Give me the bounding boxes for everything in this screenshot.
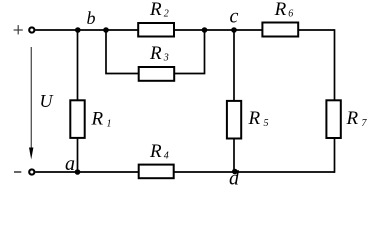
svg-text:5: 5 <box>264 118 269 129</box>
resistor R5 <box>227 101 241 139</box>
wire: R5 bottom to node d <box>233 138 235 172</box>
svg-text:2: 2 <box>164 9 169 20</box>
svg-text:d: d <box>229 167 240 189</box>
svg-text:6: 6 <box>288 9 293 20</box>
svg-text:R: R <box>149 43 162 64</box>
svg-text:R: R <box>91 109 104 130</box>
resistor R4 <box>139 165 174 179</box>
wire: right vertical into R7 <box>334 29 336 100</box>
plus terminal polarity mark <box>14 25 23 34</box>
node a junction dot <box>75 169 81 175</box>
svg-text:b: b <box>87 8 96 28</box>
svg-text:c: c <box>230 6 239 28</box>
wire: R1 bottom to node a <box>77 138 79 172</box>
svg-text:3: 3 <box>163 53 169 64</box>
svg-text:R: R <box>149 0 162 20</box>
minus terminal polarity mark <box>14 171 21 173</box>
resistor R2 <box>138 23 174 37</box>
resistor R6 <box>262 23 298 37</box>
voltage U arrow <box>30 47 32 149</box>
svg-text:1: 1 <box>107 118 112 129</box>
junction dot R3 branch right <box>202 27 208 33</box>
wire: bottom rail left of R4 <box>35 171 138 173</box>
resistor R7 <box>326 100 340 138</box>
wire: R7 bottom to bottom rail <box>334 138 336 173</box>
wire: top from + terminal to R2 <box>35 29 138 31</box>
svg-text:a: a <box>65 153 75 175</box>
terminal (+) circle <box>29 27 34 32</box>
node d junction dot <box>232 169 238 175</box>
resistor R3 <box>139 67 175 81</box>
resistor R1 <box>70 100 84 138</box>
wire: bottom rail right of R4 <box>174 171 336 173</box>
node c junction dot <box>231 27 237 33</box>
node b junction dot <box>75 27 81 33</box>
wire: node c down to R5 <box>233 30 235 101</box>
wire: top from R6 to right corner <box>298 29 335 31</box>
svg-text:U: U <box>40 91 54 111</box>
terminal (-) circle <box>29 169 34 174</box>
svg-text:R: R <box>346 108 359 129</box>
svg-text:4: 4 <box>164 151 169 162</box>
junction dot R3 branch left <box>103 27 109 33</box>
wire: R3 branch right return <box>174 30 205 74</box>
wire: b branch down to R1 <box>77 30 79 101</box>
svg-text:R: R <box>149 141 162 162</box>
wire: top from R2 to R6 <box>174 29 262 31</box>
svg-text:R: R <box>274 0 287 20</box>
wire: R3 branch left vertical <box>106 30 139 74</box>
svg-text:R: R <box>248 108 261 129</box>
